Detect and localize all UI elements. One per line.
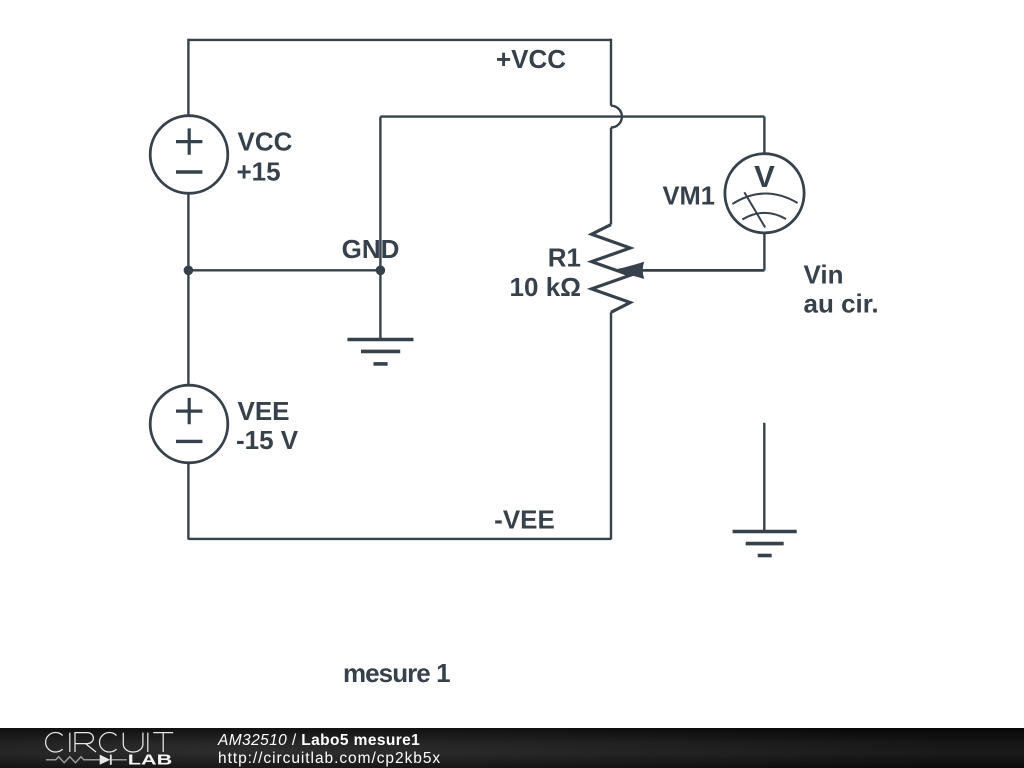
wire left vertical middle	[187, 193, 189, 385]
node GND junction dot	[376, 266, 386, 276]
svg-text:-VEE: -VEE	[494, 504, 555, 534]
voltage source VCC	[150, 116, 228, 194]
wire right vertical upper	[610, 39, 612, 106]
node A junction dot left	[184, 266, 194, 276]
wire right ground stub	[763, 423, 765, 532]
wire left vertical upper	[187, 39, 189, 116]
svg-text:R1: R1	[548, 243, 581, 273]
wire VM1 top stub	[763, 117, 765, 154]
svg-text:V: V	[754, 159, 775, 194]
svg-text:+15: +15	[237, 156, 281, 186]
voltage source VEE	[150, 385, 228, 463]
svg-text:+VCC: +VCC	[496, 44, 566, 74]
wire mid horizontal rail	[380, 115, 764, 117]
svg-text:10 kΩ: 10 kΩ	[510, 272, 581, 302]
wire R1 bottom lead to -VEE rail	[610, 312, 612, 539]
svg-text:GND: GND	[342, 234, 400, 264]
wire hop over crossing	[611, 106, 622, 128]
wire wiper horizontal	[641, 269, 764, 272]
svg-text:LAB: LAB	[128, 752, 173, 768]
svg-text:VCC: VCC	[238, 127, 293, 157]
wire top rail	[188, 39, 611, 41]
svg-text:au cir.: au cir.	[804, 289, 879, 319]
svg-text:Vin: Vin	[804, 259, 844, 289]
wire right vertical to R1	[610, 128, 612, 225]
wire VM1 bottom stub	[763, 233, 765, 270]
svg-text:-15 V: -15 V	[236, 425, 299, 455]
wire junction horizontal to GND node	[188, 269, 380, 271]
svg-text:VEE: VEE	[238, 396, 290, 426]
logo CIRCUIT LAB	[0, 728, 190, 768]
ground symbol right	[733, 532, 797, 556]
voltmeter VM1	[725, 154, 804, 233]
potentiometer R1 wiper arrow	[613, 262, 645, 279]
wire GND branch vertical	[379, 117, 381, 271]
potentiometer R1 zigzag	[592, 225, 631, 313]
wire left vertical lower	[187, 463, 189, 540]
svg-text:VM1: VM1	[662, 182, 714, 210]
ground symbol GND	[347, 340, 413, 364]
wire GND node down to ground	[379, 270, 381, 339]
svg-text:mesure 1: mesure 1	[343, 658, 450, 688]
footer bar	[0, 728, 1024, 768]
wire bottom rail	[188, 538, 611, 540]
